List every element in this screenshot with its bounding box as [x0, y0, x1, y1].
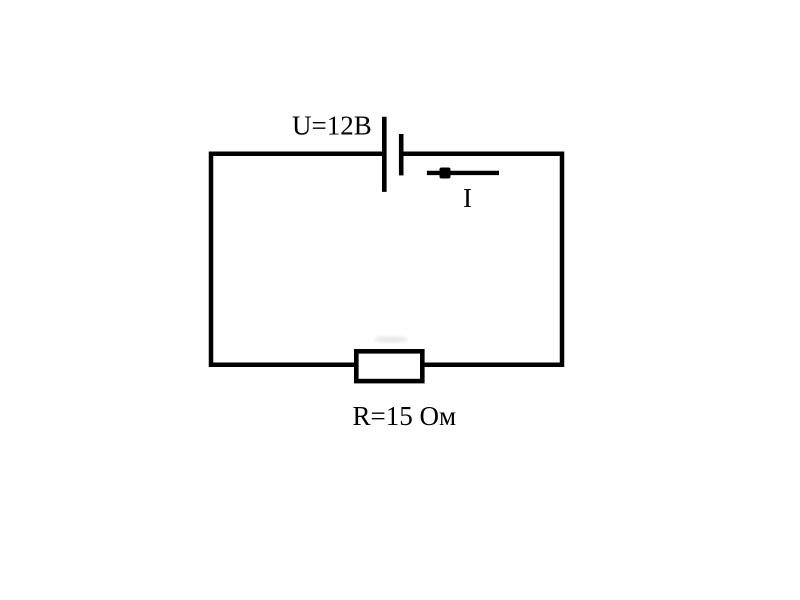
- label U=12B: [292, 111, 372, 141]
- current direction arrow line: [427, 171, 499, 175]
- label I: [463, 183, 472, 213]
- svg-text:R=15 Ом: R=15 Ом: [353, 401, 457, 431]
- svg-text:I: I: [463, 183, 472, 213]
- current direction arrowhead (square): [440, 168, 451, 179]
- wire left loop (top-left, left side, bottom-left to resistor): [211, 154, 382, 365]
- battery U1 short plate (negative): [399, 134, 404, 175]
- svg-text:U=12В: U=12В: [292, 111, 372, 141]
- label R=15 Om: [353, 401, 457, 431]
- wire right loop (from battery right plate, top-right, right side, bottom-right to resistor): [403, 154, 562, 365]
- resistor R1 body: [356, 351, 422, 381]
- erased smudge above resistor: [374, 336, 408, 342]
- battery U1 long plate (positive): [382, 117, 387, 192]
